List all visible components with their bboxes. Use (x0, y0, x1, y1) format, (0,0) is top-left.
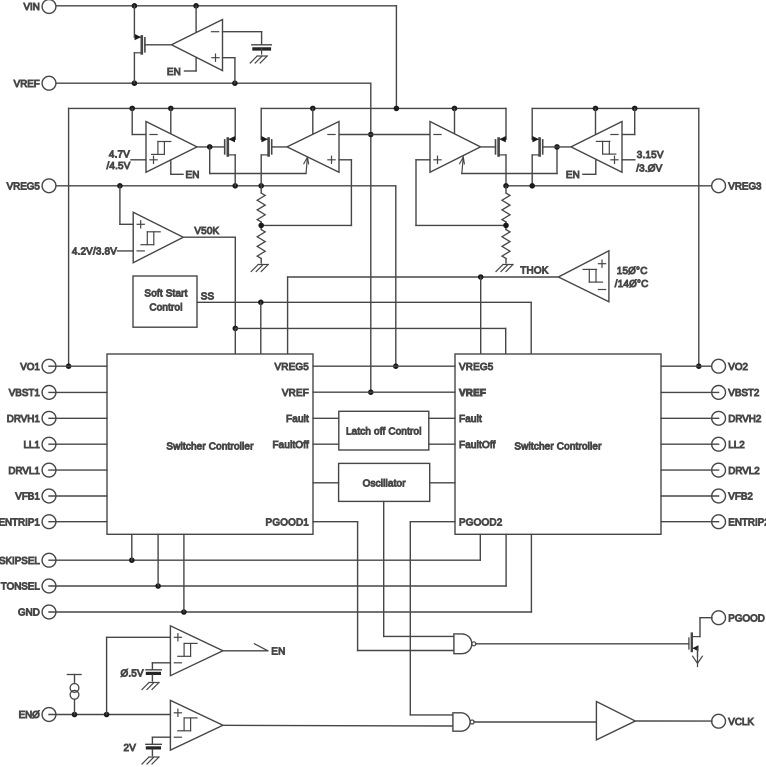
svg-text:PGOOD1: PGOOD1 (266, 517, 310, 528)
svg-text:SS: SS (201, 292, 215, 303)
svg-text:THOK: THOK (520, 266, 548, 277)
svg-text:/3.ØV: /3.ØV (636, 163, 662, 174)
svg-text:FaultOff: FaultOff (272, 440, 309, 451)
svg-text:PGOOD2: PGOOD2 (459, 517, 502, 528)
svg-text:PGOOD: PGOOD (728, 613, 764, 624)
svg-text:VREF: VREF (282, 388, 309, 399)
svg-text:/4.5V: /4.5V (106, 161, 130, 172)
svg-text:VBST1: VBST1 (9, 388, 40, 399)
svg-text:VBST2: VBST2 (728, 388, 759, 399)
svg-text:15Ø°C: 15Ø°C (617, 266, 648, 277)
svg-text:VO2: VO2 (728, 362, 748, 373)
svg-text:DRVL2: DRVL2 (728, 466, 759, 477)
svg-text:3.15V: 3.15V (637, 150, 664, 161)
svg-text:EN: EN (167, 67, 181, 78)
svg-text:ENTRIP1: ENTRIP1 (0, 517, 40, 528)
svg-text:DRVL1: DRVL1 (8, 466, 39, 477)
svg-text:VREF: VREF (459, 388, 486, 399)
svg-text:VCLK: VCLK (728, 717, 754, 728)
svg-text:Fault: Fault (459, 414, 482, 425)
svg-text:ENTRIP2: ENTRIP2 (728, 517, 766, 528)
svg-text:FaultOff: FaultOff (459, 440, 496, 451)
svg-text:EN: EN (566, 170, 580, 181)
svg-text:VFB1: VFB1 (15, 492, 40, 503)
svg-text:Latch off Control: Latch off Control (346, 427, 422, 438)
svg-text:/14Ø°C: /14Ø°C (615, 279, 649, 290)
svg-text:SKIPSEL: SKIPSEL (0, 556, 40, 567)
svg-text:2V: 2V (124, 743, 137, 754)
svg-text:Switcher Controller: Switcher Controller (514, 441, 602, 452)
svg-text:Control: Control (149, 302, 182, 313)
svg-text:VO1: VO1 (20, 362, 40, 373)
svg-text:Oscillator: Oscillator (363, 479, 407, 490)
svg-text:4.7V: 4.7V (109, 150, 130, 161)
svg-text:Ø.5V: Ø.5V (120, 669, 144, 680)
svg-text:EN: EN (186, 170, 200, 181)
svg-text:LL2: LL2 (728, 440, 744, 451)
svg-text:VIN: VIN (23, 2, 39, 13)
svg-text:GND: GND (18, 608, 40, 619)
svg-text:DRVH2: DRVH2 (728, 414, 761, 425)
svg-text:VFB2: VFB2 (728, 492, 753, 503)
svg-text:Fault: Fault (286, 414, 309, 425)
svg-text:ENØ: ENØ (19, 710, 41, 721)
svg-text:V50K: V50K (194, 226, 219, 237)
svg-text:DRVH1: DRVH1 (7, 414, 40, 425)
svg-text:VREG5: VREG5 (275, 362, 310, 373)
svg-text:VREF: VREF (14, 79, 40, 90)
svg-text:Switcher Controller: Switcher Controller (166, 441, 254, 452)
svg-text:LL1: LL1 (23, 440, 39, 451)
svg-text:TONSEL: TONSEL (1, 582, 41, 593)
svg-text:VREG5: VREG5 (7, 182, 41, 193)
svg-text:Soft Start: Soft Start (144, 288, 187, 299)
svg-text:VREG3: VREG3 (728, 182, 762, 193)
svg-text:4.2V/3.8V: 4.2V/3.8V (72, 247, 117, 258)
svg-text:VREG5: VREG5 (459, 362, 494, 373)
svg-text:EN: EN (271, 646, 285, 657)
